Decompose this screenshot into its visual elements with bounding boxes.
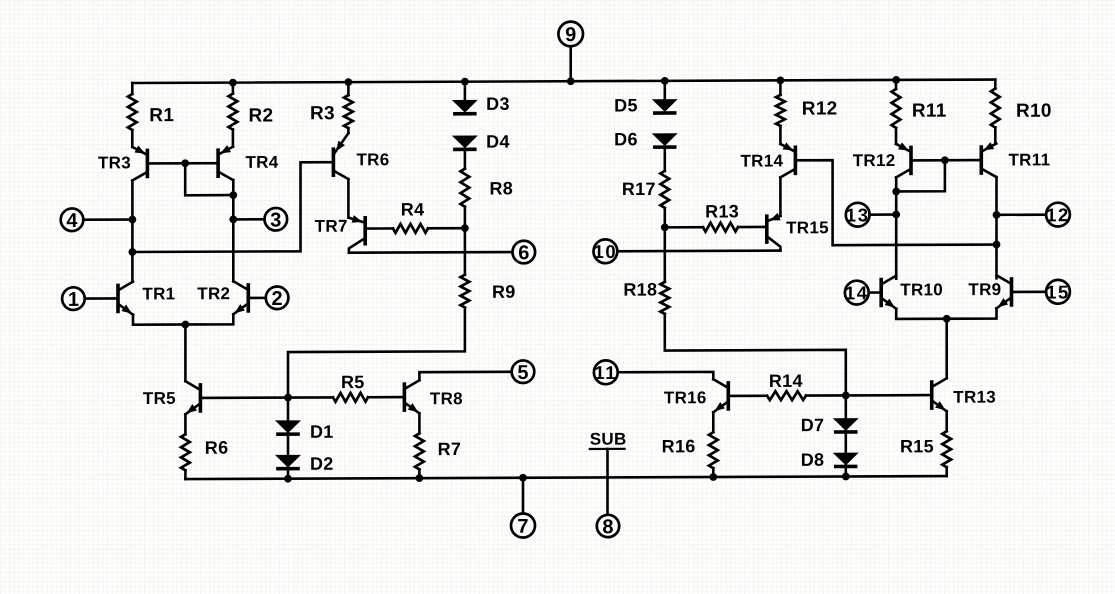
- svg-text:TR1: TR1: [142, 284, 175, 303]
- svg-text:R6: R6: [205, 438, 229, 458]
- svg-text:11: 11: [594, 362, 617, 383]
- svg-text:9: 9: [565, 24, 576, 46]
- svg-text:8: 8: [602, 516, 613, 538]
- svg-text:12: 12: [1046, 204, 1070, 225]
- svg-text:R1: R1: [149, 105, 174, 126]
- svg-text:14: 14: [845, 282, 869, 303]
- svg-text:TR5: TR5: [143, 389, 176, 408]
- svg-text:7: 7: [517, 516, 528, 538]
- svg-text:3: 3: [270, 209, 281, 231]
- svg-text:R11: R11: [912, 101, 947, 122]
- svg-text:R7: R7: [438, 439, 462, 459]
- svg-text:R13: R13: [705, 201, 739, 221]
- svg-text:R5: R5: [341, 372, 365, 392]
- svg-text:TR11: TR11: [1009, 150, 1051, 169]
- svg-text:TR2: TR2: [197, 284, 230, 303]
- svg-text:R3: R3: [310, 103, 335, 124]
- svg-text:D1: D1: [310, 422, 334, 442]
- svg-text:R9: R9: [492, 282, 516, 302]
- svg-text:D7: D7: [801, 415, 825, 435]
- svg-text:15: 15: [1046, 281, 1070, 302]
- svg-text:TR12: TR12: [853, 151, 896, 170]
- svg-text:5: 5: [517, 362, 528, 384]
- svg-text:D4: D4: [486, 132, 510, 152]
- svg-text:R8: R8: [490, 178, 514, 198]
- svg-text:TR15: TR15: [786, 218, 829, 237]
- svg-text:13: 13: [846, 204, 870, 225]
- svg-text:TR13: TR13: [953, 388, 996, 407]
- svg-text:TR10: TR10: [900, 280, 943, 299]
- svg-text:TR7: TR7: [315, 217, 348, 236]
- svg-text:D3: D3: [486, 94, 510, 114]
- svg-text:TR6: TR6: [357, 150, 390, 169]
- svg-text:6: 6: [518, 242, 529, 264]
- svg-text:TR3: TR3: [98, 153, 131, 172]
- svg-text:D6: D6: [614, 129, 638, 149]
- svg-text:2: 2: [272, 288, 283, 310]
- svg-text:10: 10: [594, 241, 618, 262]
- svg-text:R2: R2: [249, 105, 274, 126]
- svg-text:D2: D2: [310, 454, 334, 474]
- svg-text:TR8: TR8: [430, 389, 463, 408]
- svg-text:R15: R15: [900, 436, 934, 456]
- svg-text:R16: R16: [662, 436, 696, 456]
- svg-text:D8: D8: [801, 450, 825, 470]
- svg-text:R17: R17: [622, 179, 656, 199]
- svg-text:TR14: TR14: [741, 151, 784, 170]
- svg-text:R4: R4: [401, 199, 425, 219]
- svg-text:TR4: TR4: [246, 153, 279, 172]
- svg-text:4: 4: [66, 210, 78, 232]
- svg-text:SUB: SUB: [590, 430, 627, 449]
- svg-text:R18: R18: [623, 279, 657, 299]
- svg-text:R12: R12: [802, 98, 838, 119]
- svg-text:TR16: TR16: [664, 388, 707, 407]
- svg-text:R10: R10: [1016, 101, 1052, 122]
- svg-text:R14: R14: [769, 371, 803, 391]
- svg-text:TR9: TR9: [968, 280, 1001, 299]
- svg-text:1: 1: [68, 289, 79, 311]
- svg-text:D5: D5: [614, 95, 638, 115]
